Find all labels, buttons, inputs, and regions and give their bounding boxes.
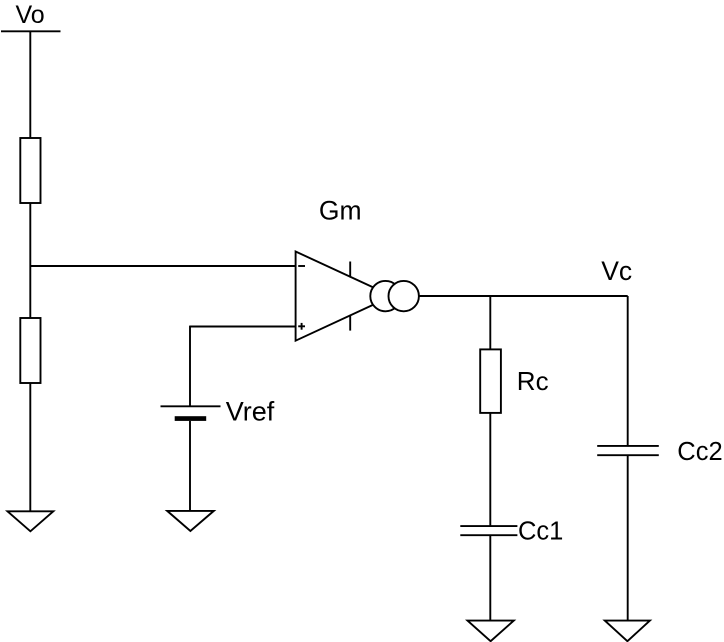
ground (divider) xyxy=(8,511,54,531)
svg-text:Rc: Rc xyxy=(517,366,549,396)
output current-source circle left xyxy=(370,281,400,311)
capacitor Cc2 bottom plate xyxy=(597,454,659,456)
battery Vref negative plate xyxy=(175,416,207,421)
wire Cc2 to ground xyxy=(627,455,629,620)
svg-text:Cc2: Cc2 xyxy=(677,438,722,466)
svg-text:Vc: Vc xyxy=(601,256,632,286)
svg-text:Vref: Vref xyxy=(226,397,275,427)
resistor Rc xyxy=(480,349,501,413)
capacitor Cc1 top plate xyxy=(460,525,517,527)
wire down to battery xyxy=(189,326,191,407)
wire op-amp output to Vc node xyxy=(419,295,628,297)
wire Rc to Cc1 xyxy=(489,413,491,526)
wire R2 to ground xyxy=(29,383,31,511)
output current-source circle right xyxy=(389,281,419,311)
op-amp minus input mark xyxy=(298,265,305,267)
wire R1 to R2 xyxy=(29,203,31,318)
svg-text:Vo: Vo xyxy=(16,1,45,29)
op-amp U1 Gm triangle xyxy=(296,252,392,341)
wire Vref to op-amp plus input xyxy=(190,326,296,328)
op-amp top tick xyxy=(349,262,351,278)
capacitor Cc1 bottom plate xyxy=(460,534,517,536)
ground (Cc1) xyxy=(468,621,514,642)
op-amp plus input mark xyxy=(298,325,305,327)
ground (Cc2) xyxy=(605,621,650,642)
wire battery to ground xyxy=(189,421,191,511)
resistor R1 xyxy=(20,138,40,203)
battery Vref positive plate xyxy=(161,405,221,407)
wire Vo to R1 xyxy=(29,31,31,138)
capacitor Cc2 top plate xyxy=(597,445,659,447)
wire Cc1 to ground xyxy=(489,535,491,620)
svg-text:Cc1: Cc1 xyxy=(518,518,563,546)
svg-text:Gm: Gm xyxy=(319,195,362,225)
wire output node down to Rc xyxy=(489,296,491,349)
node Vo rail xyxy=(1,30,61,32)
ground (Vref) xyxy=(167,511,214,531)
resistor R2 xyxy=(20,318,40,383)
wire divider tap to op-amp inverting input xyxy=(30,265,295,267)
wire Vc node down to Cc2 xyxy=(627,296,629,446)
op-amp bottom tick xyxy=(349,315,351,331)
